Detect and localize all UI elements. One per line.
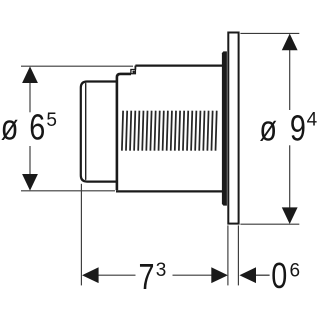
dim 06 left extension line below plate bbox=[227, 225, 229, 285]
clip dot bbox=[132, 71, 135, 74]
body top edge bbox=[135, 64, 222, 66]
svg-text:3: 3 bbox=[156, 260, 167, 281]
dim 06 text bbox=[271, 255, 300, 296]
dim ø94 top extension line bbox=[240, 32, 299, 34]
body top step bbox=[134, 66, 136, 70]
dim 73 left extension line bbox=[80, 184, 82, 286]
mounting flange bbox=[222, 51, 227, 205]
dim 06 tail line bbox=[256, 274, 270, 276]
dim 73 line left segment bbox=[98, 274, 136, 276]
dim ø65 arrow down bbox=[22, 174, 38, 191]
dim ø94 bottom extension line bbox=[240, 223, 299, 225]
dim ø94 text bbox=[259, 107, 317, 148]
dim 73 text bbox=[139, 256, 167, 297]
dim 73 arrow left bbox=[82, 267, 99, 283]
clip square bbox=[131, 70, 136, 74]
svg-text:4: 4 bbox=[307, 110, 318, 131]
cap inner face line bbox=[85, 84, 87, 180]
thread hatching bbox=[122, 111, 217, 151]
svg-text:6: 6 bbox=[290, 260, 301, 281]
svg-text:ø: ø bbox=[1, 106, 19, 147]
dim ø65 line lower segment bbox=[29, 146, 31, 189]
dim 73 arrow right bbox=[211, 267, 228, 283]
dim ø65 text bbox=[1, 106, 57, 147]
dim ø94 arrow down bbox=[282, 207, 298, 224]
svg-text:6: 6 bbox=[29, 106, 45, 147]
body bottom edge bbox=[116, 190, 223, 192]
collar top and left edge bbox=[117, 74, 131, 190]
dim 06 arrow bbox=[239, 267, 256, 283]
dim ø65 line upper segment bbox=[29, 68, 31, 112]
dim ø65 top extension line bbox=[21, 65, 133, 67]
svg-text:ø: ø bbox=[259, 107, 277, 148]
svg-text:0: 0 bbox=[271, 255, 287, 296]
dim ø94 arrow up bbox=[282, 34, 298, 51]
svg-text:7: 7 bbox=[139, 256, 155, 297]
dim 06 right extension line below plate bbox=[237, 225, 239, 285]
dim ø94 line upper segment bbox=[289, 35, 291, 110]
dim ø65 arrow up bbox=[22, 66, 38, 83]
cap outline bbox=[81, 82, 118, 182]
svg-text:5: 5 bbox=[46, 110, 57, 131]
dim ø94 line lower segment bbox=[289, 145, 291, 222]
svg-text:9: 9 bbox=[290, 107, 306, 148]
dim ø65 bottom extension line bbox=[21, 190, 115, 192]
dim 73 line right segment bbox=[173, 274, 213, 276]
cover plate bbox=[228, 33, 238, 224]
